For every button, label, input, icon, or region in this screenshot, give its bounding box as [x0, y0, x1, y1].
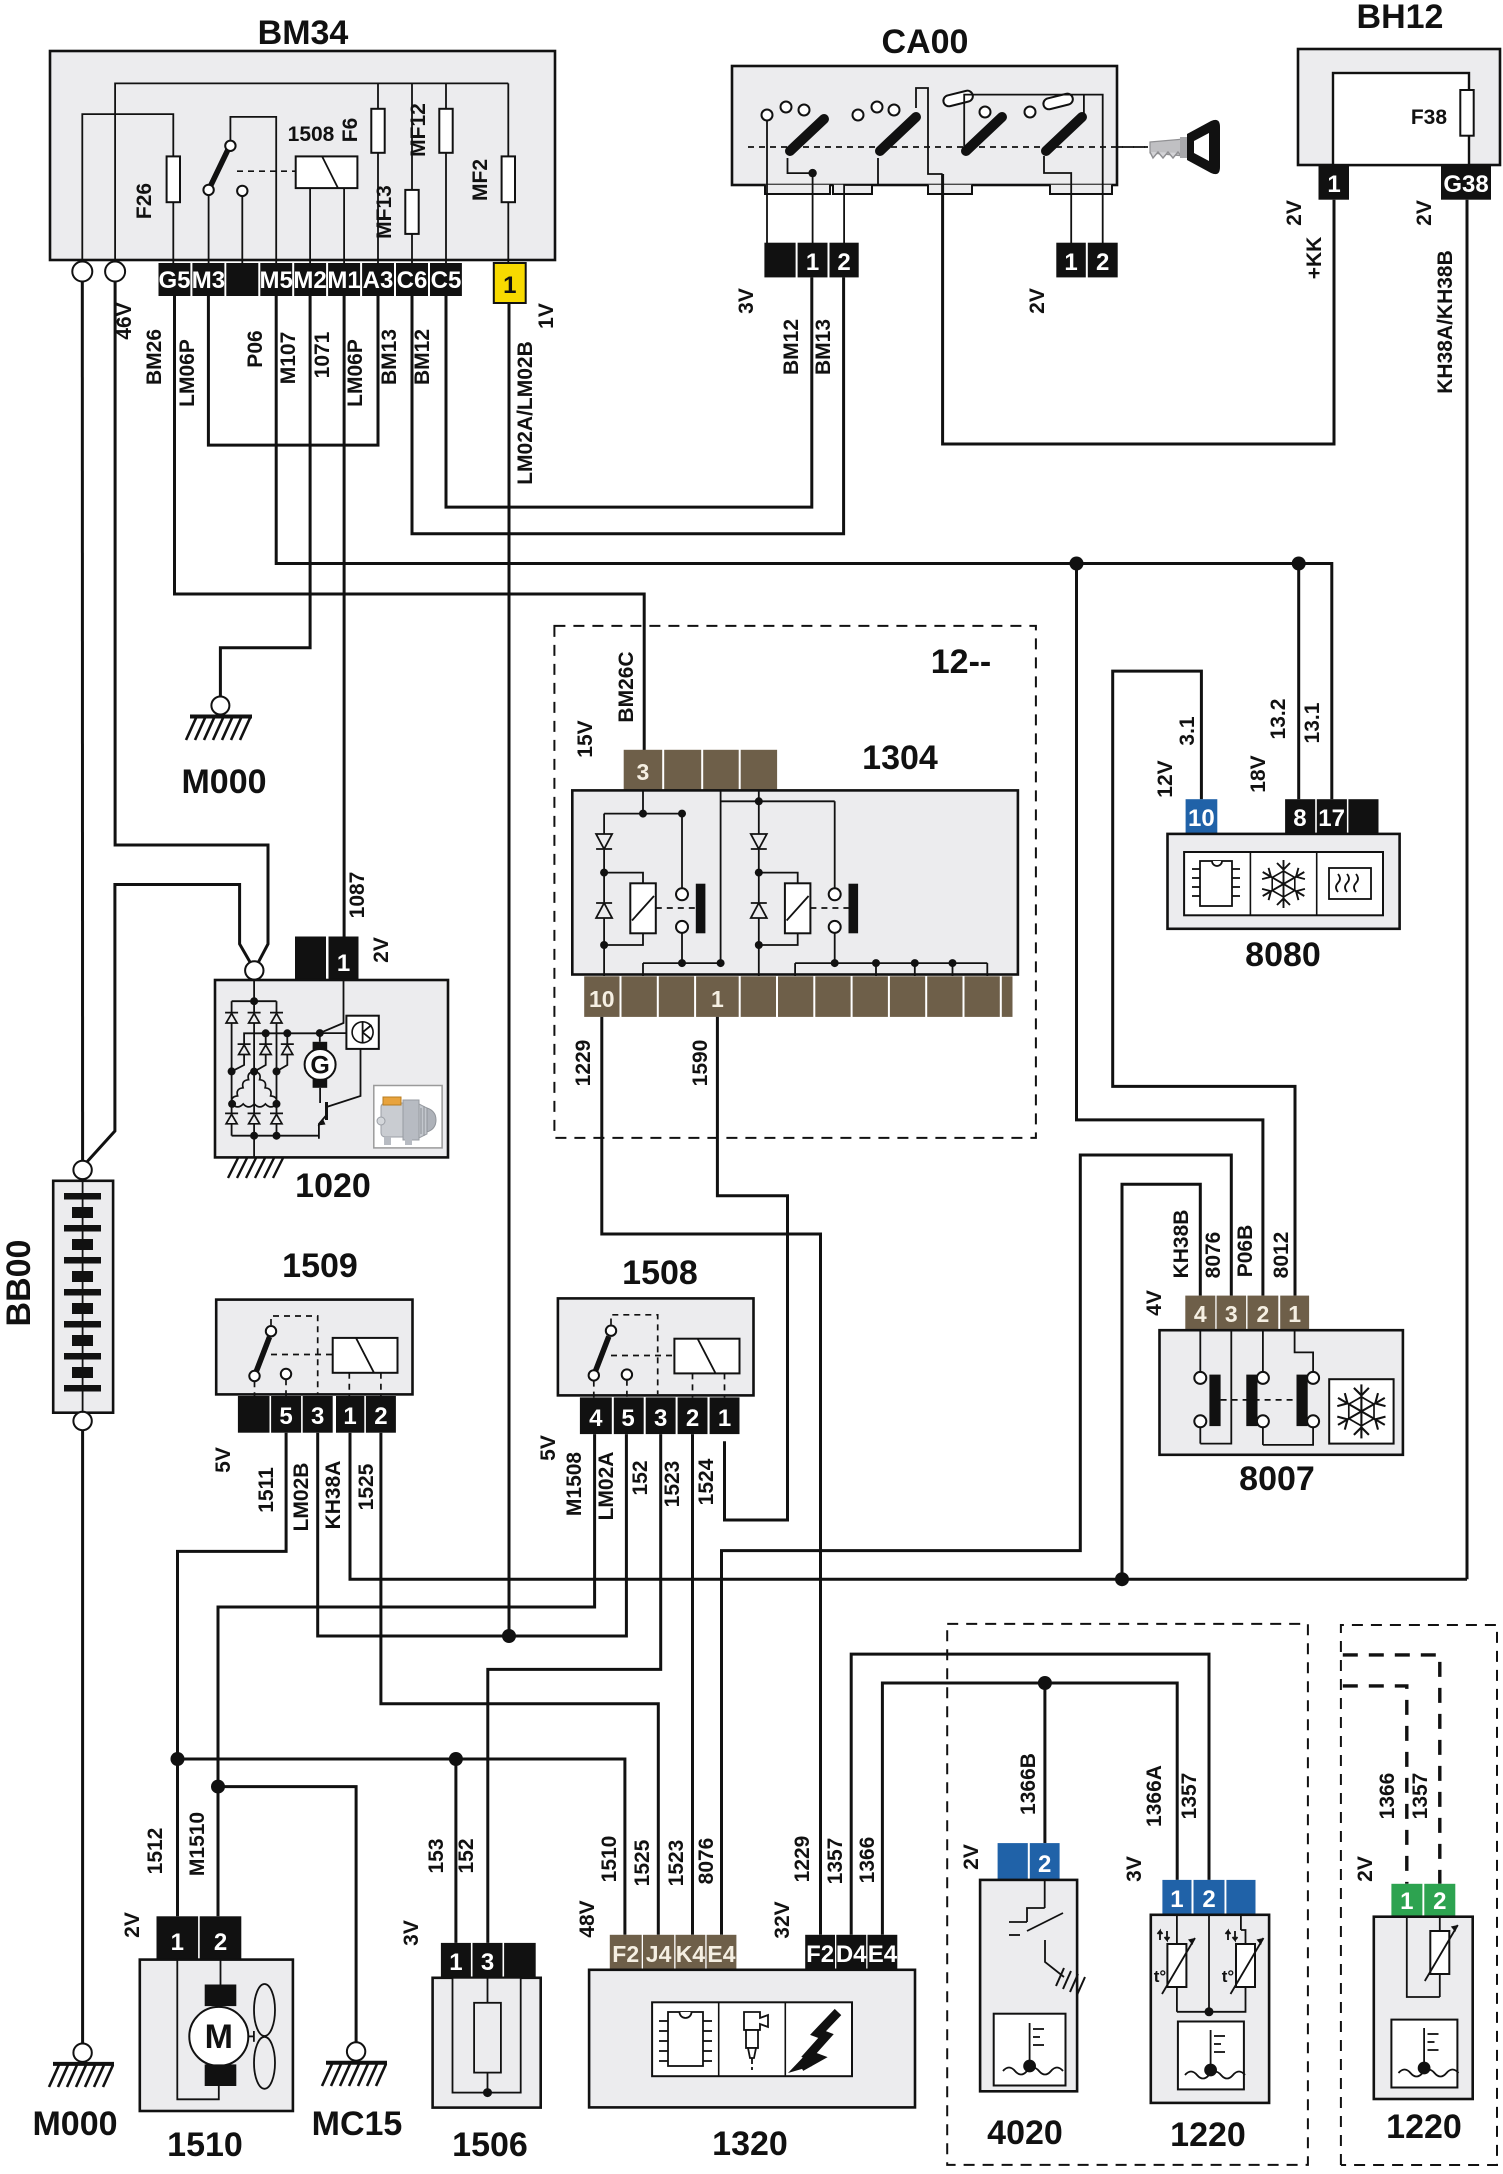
internal bus 1	[115, 83, 508, 263]
blade4 contacts	[1025, 107, 1036, 118]
node P06/13.2	[1292, 557, 1306, 571]
1508 connector	[580, 1397, 740, 1434]
svg-text:8076: 8076	[695, 1838, 718, 1885]
1509 coil	[333, 1338, 398, 1373]
1508 switch	[594, 1337, 609, 1376]
wire 1357 D4 to 1220 pin2	[851, 1654, 1209, 1935]
4020 thermometer icon	[994, 2014, 1066, 2086]
svg-text:2: 2	[374, 1403, 387, 1430]
BM34 box	[50, 51, 555, 260]
svg-text:1V: 1V	[535, 303, 558, 329]
8080 pin 10	[1186, 799, 1218, 834]
1320 chip icon	[659, 2012, 712, 2066]
svg-text:1: 1	[718, 1405, 731, 1432]
svg-text:1508: 1508	[288, 123, 335, 146]
svg-text:1525: 1525	[355, 1463, 378, 1510]
fuse F26	[172, 202, 174, 265]
svg-text:1220: 1220	[1386, 2108, 1462, 2146]
svg-text:1: 1	[343, 1403, 356, 1430]
svg-text:2: 2	[1096, 249, 1109, 276]
switch blade 4	[1046, 117, 1082, 151]
svg-text:3.1: 3.1	[1176, 716, 1199, 746]
svg-text:1: 1	[337, 950, 350, 977]
ghost 1220 thermistor	[1407, 1917, 1440, 1997]
svg-text:F2: F2	[612, 1941, 639, 1967]
wire 1511 1509 pin5 to fan feed	[178, 1433, 287, 1917]
circuit2 diodes	[751, 834, 767, 849]
svg-text:F2: F2	[806, 1941, 834, 1968]
1509 box	[216, 1300, 412, 1395]
svg-text:G: G	[310, 1052, 329, 1080]
8007 snowflake icon	[1329, 1379, 1393, 1443]
svg-text:3: 3	[637, 759, 650, 785]
svg-text:M1510: M1510	[186, 1812, 209, 1876]
svg-text:1087: 1087	[346, 872, 369, 919]
svg-text:1320: 1320	[712, 2125, 788, 2163]
svg-text:G5: G5	[158, 267, 190, 294]
BM34 yellow pin 1	[494, 263, 526, 303]
brushes and G rotor	[313, 1042, 328, 1051]
dashed box 12--	[554, 626, 1036, 1138]
wire P06 M5 to 8080 pins	[276, 296, 1332, 799]
1320 injector icon	[744, 2012, 768, 2070]
wire battery to lower ground	[81, 1430, 84, 2043]
ghost wire 1366	[1343, 1686, 1407, 1884]
8080 chip icon	[1192, 861, 1240, 906]
svg-text:2: 2	[1038, 1851, 1051, 1878]
node P06/P06B	[1070, 557, 1084, 571]
8007 internals	[1200, 1330, 1313, 1445]
switch blade 2	[880, 117, 916, 151]
svg-text:8012: 8012	[1270, 1232, 1293, 1279]
svg-text:1523: 1523	[661, 1461, 684, 1508]
1508 dashed actuator	[611, 1315, 658, 1394]
8007 connector	[1185, 1296, 1309, 1331]
ghost wire 1357	[1343, 1655, 1440, 1884]
svg-text:1: 1	[449, 1949, 462, 1976]
wire 3.1 8080 pin10 to 8007 pin1 (8012)	[1113, 671, 1295, 1296]
alternator photo	[374, 1086, 442, 1148]
node KH38	[1115, 1572, 1129, 1586]
svg-text:10: 10	[589, 986, 615, 1012]
wire P06 branch to 8080 pin8	[1297, 564, 1300, 800]
fuse F6	[377, 83, 379, 265]
1508 box	[558, 1298, 754, 1395]
BM34 connector strip	[158, 263, 461, 296]
svg-text:M1508: M1508	[563, 1452, 586, 1517]
svg-text:M107: M107	[277, 332, 300, 385]
wire KH38A 1509 pin1 to G38 line	[350, 1433, 1467, 1580]
svg-text:1020: 1020	[295, 1167, 371, 1205]
svg-text:C5: C5	[431, 267, 462, 294]
svg-text:1366A: 1366A	[1143, 1765, 1166, 1827]
BH12 pin G38	[1441, 165, 1491, 200]
wire BM13 C6 to CA00 pin2	[412, 277, 844, 533]
8080 box	[1168, 834, 1400, 929]
8007 box	[1160, 1330, 1403, 1455]
svg-text:BM12: BM12	[780, 319, 803, 375]
circuit2 coil	[785, 883, 811, 933]
wire 1366 E4 to 1220 pin1	[882, 1683, 1177, 1935]
fuse MF13	[411, 83, 413, 265]
8080 heater icon	[1329, 868, 1371, 899]
1220 connector	[1162, 1880, 1191, 1915]
svg-text:1590: 1590	[689, 1040, 712, 1087]
svg-text:4: 4	[589, 1405, 603, 1432]
dashed option box B	[1341, 1625, 1497, 2165]
wire P06B branch to 8007 pin2	[1077, 564, 1263, 1296]
svg-text:M000: M000	[181, 763, 266, 801]
1506 connector	[441, 1943, 471, 1978]
svg-text:M: M	[205, 2018, 233, 2056]
svg-text:F26: F26	[133, 183, 156, 219]
svg-text:13.1: 13.1	[1301, 702, 1324, 743]
wire LM02B 1509 pin3 to 1508 pin5	[318, 1433, 627, 1636]
svg-text:LM06P: LM06P	[176, 339, 199, 407]
1320 icon strip	[652, 2002, 852, 2076]
svg-text:1523: 1523	[665, 1840, 688, 1887]
svg-text:48V: 48V	[576, 1900, 599, 1937]
svg-text:2: 2	[837, 249, 850, 276]
node M1510	[211, 1780, 225, 1794]
svg-text:1071: 1071	[311, 331, 334, 378]
svg-text:2: 2	[1257, 1301, 1270, 1327]
svg-text:BM13: BM13	[812, 319, 835, 375]
fuse MF12	[445, 83, 447, 265]
svg-text:1366B: 1366B	[1017, 1753, 1040, 1815]
wire alternator to battery	[86, 885, 252, 1164]
node 153	[449, 1752, 463, 1766]
1320 lightning icon	[801, 2012, 838, 2067]
wire 1229 from 1304 pin10 to 1320 F2b	[602, 1017, 821, 1935]
fuse MF2	[507, 83, 509, 265]
svg-text:3V: 3V	[1123, 1856, 1146, 1882]
svg-text:BM13: BM13	[378, 329, 401, 385]
svg-text:1220: 1220	[1170, 2116, 1246, 2154]
svg-text:BB00: BB00	[0, 1240, 38, 1327]
svg-text:1229: 1229	[791, 1836, 814, 1883]
svg-text:1: 1	[1170, 1886, 1183, 1913]
svg-text:1304: 1304	[862, 739, 938, 777]
svg-text:3: 3	[311, 1403, 324, 1430]
transistor	[319, 1088, 321, 1103]
switch blade 3	[966, 117, 1002, 151]
svg-text:1229: 1229	[572, 1040, 595, 1087]
wire from circle2 to alternator	[115, 282, 268, 964]
1220 box	[1151, 1915, 1269, 2103]
1509 switch	[255, 1337, 270, 1376]
blade3 contacts	[942, 90, 974, 108]
svg-text:BM26C: BM26C	[615, 651, 638, 722]
svg-text:5: 5	[279, 1403, 292, 1430]
svg-text:1: 1	[503, 272, 516, 299]
1509 dashed actuator	[271, 1316, 318, 1394]
svg-text:17: 17	[1318, 805, 1345, 832]
svg-text:1357: 1357	[824, 1838, 847, 1885]
wire 1523 1508 pin2 to 1320 K4	[691, 1434, 694, 1935]
bridge diodes	[225, 1013, 294, 1124]
svg-text:KH38A/KH38B: KH38A/KH38B	[1434, 250, 1457, 394]
circuit1 diodes	[596, 834, 612, 849]
svg-text:BM26: BM26	[143, 329, 166, 385]
1020 pins	[295, 937, 326, 981]
svg-text:13.2: 13.2	[1267, 699, 1290, 740]
wire 1525 1509 pin2 to 1320 J4	[381, 1433, 658, 1935]
BH12 box	[1298, 49, 1500, 165]
wire M1510 ground node to MC15	[218, 1787, 356, 2043]
1304 top connector	[624, 750, 777, 791]
svg-text:12V: 12V	[1154, 760, 1177, 797]
wire BM26 G5 to 1304 pin3 (BM26C)	[175, 296, 645, 750]
svg-text:MF12: MF12	[407, 103, 430, 157]
1020 connector circle	[245, 961, 263, 979]
blade2 contacts	[853, 110, 864, 121]
fan blades	[248, 1984, 275, 2089]
blade1 contacts	[762, 110, 773, 121]
svg-text:10: 10	[1188, 805, 1215, 832]
svg-text:LM02B: LM02B	[290, 1463, 313, 1532]
wire BM12 C5 to CA00 pin1	[446, 277, 812, 507]
ghost 1220 connector	[1391, 1884, 1422, 1917]
svg-text:2V: 2V	[1413, 200, 1436, 226]
svg-text:8007: 8007	[1239, 1460, 1315, 1498]
svg-text:3V: 3V	[400, 1920, 423, 1946]
svg-text:BM34: BM34	[258, 14, 349, 52]
svg-text:E4: E4	[868, 1941, 898, 1968]
8080 snowflake icon	[1259, 860, 1307, 908]
wire 1510 feed to 1320 F2	[178, 1759, 625, 1935]
svg-text:LM02A: LM02A	[595, 1452, 618, 1521]
1506 circuit	[453, 1978, 521, 2093]
svg-text:1366: 1366	[1376, 1773, 1399, 1820]
svg-text:2: 2	[686, 1405, 699, 1432]
svg-text:2: 2	[1202, 1886, 1215, 1913]
svg-text:M2: M2	[293, 267, 326, 294]
svg-text:1: 1	[171, 1929, 184, 1956]
svg-text:1: 1	[711, 986, 724, 1012]
svg-text:1357: 1357	[1409, 1773, 1432, 1820]
CA00 box	[732, 66, 1117, 185]
1510 connector	[157, 1916, 199, 1959]
svg-text:1512: 1512	[144, 1828, 167, 1875]
ghost 1220 box	[1374, 1917, 1473, 2099]
svg-text:MC15: MC15	[312, 2105, 403, 2143]
1320 brown connector F2 J4 K4 E4	[610, 1935, 737, 1970]
wire 1071/1087 M1 to 1020 pin1	[343, 296, 346, 937]
BB00 box	[53, 1181, 113, 1413]
1509 pin stubs	[255, 1373, 381, 1396]
svg-text:8080: 8080	[1245, 936, 1321, 974]
svg-text:2V: 2V	[1354, 1856, 1377, 1882]
svg-text:3: 3	[1225, 1301, 1238, 1327]
CA00 internal links	[766, 120, 768, 243]
svg-text:MF13: MF13	[373, 185, 396, 239]
key icon	[1117, 120, 1220, 174]
svg-text:D4: D4	[836, 1941, 867, 1968]
1220 thermometer icon	[1178, 2022, 1244, 2090]
svg-text:1: 1	[1327, 171, 1340, 198]
1304 circuit 1	[604, 790, 721, 976]
svg-text:1506: 1506	[452, 2126, 528, 2164]
1320 black connector F2 D4 E4	[805, 1935, 898, 1970]
svg-text:KH38A: KH38A	[322, 1461, 345, 1530]
wire +KK from CA00 to BH12 pin1	[943, 174, 1334, 444]
svg-text:15V: 15V	[574, 720, 597, 757]
node 1511/1510	[171, 1752, 185, 1766]
svg-text:32V: 32V	[771, 1901, 794, 1938]
svg-text:F6: F6	[339, 118, 362, 143]
1508 pin stubs	[594, 1373, 725, 1397]
svg-text:BH12: BH12	[1357, 0, 1444, 36]
1510 box	[140, 1960, 293, 2111]
svg-text:152: 152	[455, 1838, 478, 1873]
gauge icon box	[346, 1016, 378, 1049]
svg-text:+KK: +KK	[1303, 237, 1326, 280]
svg-text:M000: M000	[32, 2105, 117, 2143]
CA00 right connector	[1056, 243, 1086, 278]
wire 153 branch to 1506 pin1	[454, 1759, 457, 1943]
svg-text:BM12: BM12	[411, 329, 434, 385]
svg-text:CA00: CA00	[882, 23, 969, 61]
svg-text:1: 1	[1288, 1301, 1301, 1327]
1304 bottom connector	[584, 976, 1012, 1017]
node LM02	[502, 1629, 516, 1643]
regulator wire from pin 1	[320, 980, 344, 1033]
svg-text:P06B: P06B	[1234, 1225, 1257, 1278]
BH12 pin 1	[1319, 165, 1350, 200]
svg-text:1: 1	[1064, 249, 1077, 276]
svg-text:3: 3	[654, 1405, 667, 1432]
svg-text:1: 1	[1400, 1888, 1413, 1915]
svg-text:2V: 2V	[1026, 288, 1049, 314]
svg-text:2V: 2V	[1283, 200, 1306, 226]
svg-text:8: 8	[1293, 805, 1306, 832]
ground M000	[211, 697, 229, 715]
4020 switch internals	[1009, 1880, 1064, 1977]
CA00 box bottom tabs	[765, 185, 1112, 194]
svg-text:MF2: MF2	[469, 159, 492, 201]
ghost 1220 thermometer icon	[1391, 2020, 1457, 2088]
svg-text:1508: 1508	[622, 1254, 698, 1292]
svg-text:4V: 4V	[1143, 1290, 1166, 1316]
circuit1 coil	[630, 883, 656, 933]
switch 1508 contact in BM34	[208, 194, 210, 265]
4020 box	[980, 1880, 1077, 2091]
svg-text:4: 4	[1194, 1301, 1207, 1327]
battery plates	[82, 1181, 84, 1413]
CA00 dashed axis	[748, 146, 1148, 148]
svg-text:5V: 5V	[212, 1447, 235, 1473]
svg-text:5: 5	[621, 1405, 634, 1432]
4020 connector	[998, 1843, 1028, 1880]
svg-text:2: 2	[1433, 1888, 1446, 1915]
svg-text:153: 153	[425, 1838, 448, 1873]
svg-text:t°: t°	[1154, 1967, 1167, 1986]
svg-text:1525: 1525	[631, 1839, 654, 1886]
svg-text:1510: 1510	[167, 2126, 243, 2164]
1509 connector	[238, 1396, 396, 1433]
1220 thermistors	[1177, 1915, 1246, 2012]
1304 circuit 2	[721, 790, 988, 976]
switch blade 1	[790, 119, 824, 151]
svg-text:E4: E4	[707, 1941, 735, 1967]
battery top circle	[73, 1161, 91, 1179]
svg-text:5V: 5V	[537, 1435, 560, 1461]
wire LM02A/LM02B from yellow pin 1	[508, 303, 511, 1636]
1508 coil	[674, 1339, 739, 1374]
svg-text:A3: A3	[363, 267, 394, 294]
BH12 inner circuit box	[1333, 73, 1469, 165]
battery bottom circle	[73, 1412, 91, 1430]
wire LM06P M3-A3 link	[208, 296, 378, 445]
svg-text:M5: M5	[260, 267, 293, 294]
svg-text:1366: 1366	[856, 1837, 879, 1884]
svg-text:1509: 1509	[282, 1247, 358, 1285]
svg-text:1510: 1510	[598, 1836, 621, 1883]
svg-text:M1: M1	[327, 267, 360, 294]
1304 box	[572, 790, 1018, 974]
svg-text:F38: F38	[1411, 106, 1448, 129]
svg-text:t°: t°	[1222, 1967, 1235, 1986]
svg-text:1357: 1357	[1178, 1773, 1201, 1820]
svg-text:1524: 1524	[695, 1458, 718, 1505]
BM34 connector circles	[72, 262, 92, 282]
delta winding	[232, 1072, 277, 1107]
svg-text:LM02A/LM02B: LM02A/LM02B	[514, 341, 537, 485]
internal bus 2	[82, 114, 173, 263]
1020 ground hatch	[228, 1158, 283, 1178]
svg-text:3: 3	[481, 1949, 494, 1976]
dashed option box A	[947, 1624, 1308, 2165]
svg-text:J4: J4	[646, 1941, 672, 1967]
1506 box	[433, 1978, 541, 2108]
bridge dots	[250, 997, 258, 1005]
wire 1590 from 1304 pin1 to 1508 pin1	[717, 1017, 787, 1520]
svg-text:2: 2	[214, 1929, 227, 1956]
svg-text:LM06P: LM06P	[344, 339, 367, 407]
wire M107 M2 to ground M000	[220, 296, 310, 697]
wire KH38B 8007 pin4 to KH38A line	[1122, 1184, 1200, 1579]
svg-text:18V: 18V	[1247, 755, 1270, 792]
svg-text:3V: 3V	[735, 288, 758, 314]
wire 152 1508 pin3 to 1506 pin3	[488, 1434, 661, 1943]
wire M1508 1508 pin4 to ground node	[218, 1434, 595, 1916]
1510 motor internals	[177, 1960, 219, 2100]
svg-text:P06: P06	[244, 330, 267, 367]
node 1366B	[1038, 1676, 1052, 1690]
svg-text:8076: 8076	[1202, 1232, 1225, 1279]
svg-text:G38: G38	[1443, 171, 1488, 198]
1020 box	[215, 980, 448, 1157]
wire from circle1 to battery BB00	[81, 282, 84, 1162]
svg-text:M3: M3	[192, 267, 225, 294]
wire KH38A/KH38B from G38 down	[1466, 200, 1469, 1580]
svg-text:4020: 4020	[987, 2114, 1063, 2152]
svg-text:2V: 2V	[960, 1844, 983, 1870]
1020 bridge rectifier	[232, 980, 320, 1158]
fuse F38	[1460, 90, 1473, 136]
1320 box	[589, 1970, 915, 2108]
8080 pins 8 17 blank	[1285, 799, 1315, 834]
svg-text:12--: 12--	[931, 643, 991, 681]
CA00 left connector	[764, 243, 795, 278]
circuit2 contact	[829, 888, 841, 900]
svg-text:C6: C6	[397, 267, 428, 294]
svg-text:K4: K4	[676, 1941, 706, 1967]
svg-text:KH38B: KH38B	[1170, 1210, 1193, 1279]
wire 1366B branch to 4020 pin2	[1043, 1683, 1046, 1843]
svg-text:152: 152	[629, 1460, 652, 1495]
